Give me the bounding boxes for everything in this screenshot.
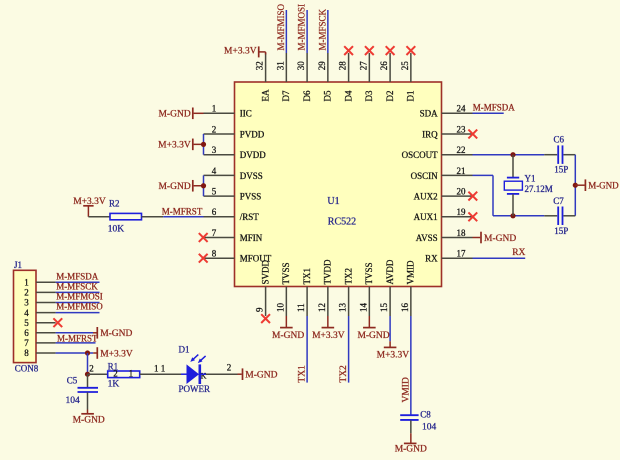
pin 32 EA [255,53,271,102]
junction pins 4-5 [201,183,206,188]
svg-text:M-MFSDA: M-MFSDA [473,102,516,112]
pin 24 SDA [420,104,473,119]
pin 30 D6 [296,53,312,102]
pin 14 TVSS [358,262,374,316]
op-amp U1 RC522 IC body [235,82,442,287]
svg-text:7: 7 [212,228,217,238]
pin 18 AVSS [416,228,473,243]
svg-text:M-GND: M-GND [73,415,105,425]
svg-text:OSCOUT: OSCOUT [402,150,439,160]
wire net TX2 pin 13 [348,316,350,383]
svg-text:PVDD: PVDD [240,129,265,139]
svg-text:1: 1 [129,368,134,378]
svg-text:M+3.3V: M+3.3V [224,47,257,57]
LED D1 POWER [179,345,211,394]
pin 1 IIC [204,104,252,119]
J1 pin 7 [24,338,55,348]
svg-text:15P: 15P [554,165,568,175]
svg-text:DVDD: DVDD [240,150,266,160]
svg-text:U1: U1 [327,196,339,207]
wire net M-MFMISO J1 pin 4 [56,312,100,314]
connector J1 CON8 body [14,260,39,374]
pin 2 PVDD [204,124,265,139]
junction pins 2-3 [201,142,206,147]
svg-text:VMID: VMID [406,260,416,284]
junction node R1/C5 [85,372,90,377]
svg-text:DVSS: DVSS [240,171,263,181]
J1 pin 4 [24,308,55,318]
pin 31 D7 [275,53,291,102]
svg-text:27.12M: 27.12M [525,184,553,194]
svg-text:TX2: TX2 [339,365,349,383]
svg-text:D2: D2 [385,91,395,102]
svg-text:TVSS: TVSS [281,262,291,284]
svg-text:12: 12 [317,303,327,312]
svg-text:8: 8 [24,348,29,358]
wire net M-MFMOSI [306,10,308,53]
power M-GND at pin 18 [473,232,517,244]
wire pins 4-5 bridge [203,175,205,196]
power M-GND at pins 4-5 [158,180,203,192]
no-connect X pin 26 [386,46,395,55]
svg-text:MFIN: MFIN [240,233,263,243]
svg-text:M+3.3V: M+3.3V [158,141,191,151]
svg-text:M-GND: M-GND [245,370,277,380]
svg-text:RC522: RC522 [328,216,356,227]
crystal Y1 27.12M [504,155,552,216]
wire net M-MFRST J1 pin 7 [56,342,96,344]
capacitor C8 104 [400,410,436,434]
no-connect X pin 9 [261,314,270,323]
wire net M-MFMISO [285,10,287,53]
svg-text:2: 2 [227,362,232,372]
svg-text:3: 3 [24,298,29,308]
svg-text:TX1: TX1 [298,365,308,383]
pin 29 D5 [317,53,333,102]
wire M+3.3V to R2 [88,216,110,218]
svg-text:22: 22 [457,145,466,155]
svg-text:6: 6 [212,207,217,217]
svg-text:M-GND: M-GND [395,444,427,454]
svg-text:AUX1: AUX1 [414,212,438,222]
svg-text:15P: 15P [554,226,568,236]
power M-GND at C5 [73,410,105,426]
svg-text:2: 2 [212,124,217,134]
svg-text:M+3.3V: M+3.3V [312,331,345,341]
no-connect X J1 pin 5 [53,318,62,327]
svg-text:6: 6 [24,328,29,338]
svg-text:29: 29 [317,61,327,71]
svg-text:CON8: CON8 [15,364,39,374]
pin 8 MFOUT [204,249,272,264]
svg-text:1: 1 [154,364,159,374]
svg-text:SDA: SDA [420,109,439,119]
power M-GND at D1 [238,368,278,380]
svg-text:21: 21 [457,166,466,176]
junction M-GND osc [573,183,578,188]
wire net VMID pin 16 [410,316,412,415]
svg-text:M-GND: M-GND [272,331,304,341]
no-connect X pin 27 [365,46,374,55]
svg-text:8: 8 [212,249,217,259]
power M+3.3V at pin 32 [224,46,266,57]
J1 pin 8 [24,348,55,358]
svg-text:AVDD: AVDD [385,259,395,284]
svg-text:M-GND: M-GND [158,182,190,192]
svg-text:D7: D7 [281,90,291,101]
pin 12 TVDD [317,259,333,316]
power M-GND at J1 pin 6 [56,327,133,339]
svg-text:EA: EA [260,89,270,101]
power M-GND at pin 14 [357,316,389,341]
svg-text:M-MFSCK: M-MFSCK [317,8,327,50]
svg-text:M-GND: M-GND [158,110,190,120]
svg-text:RX: RX [512,248,525,258]
wire net RX pin 17 [473,257,526,259]
svg-text:3: 3 [212,145,217,155]
J1 pin 6 [24,328,55,338]
J1 pin 1 [24,278,55,288]
svg-text:Y1: Y1 [525,174,536,184]
svg-text:104: 104 [66,396,81,406]
svg-text:SVDD: SVDD [260,259,270,284]
wire net M-MFSDA J1 pin 1 [56,281,100,283]
wire net M-MFSCK [327,10,329,53]
svg-text:10: 10 [275,303,285,313]
wire D1 to M-GND [201,373,237,375]
power M+3.3V at J1 pin 8 [93,347,133,359]
svg-text:2: 2 [89,364,94,374]
wire J1 pin8 down to node [87,353,89,374]
svg-text:D4: D4 [343,90,353,101]
pin 17 RX [425,249,472,264]
no-connect X pin 25 [406,46,415,55]
svg-text:20: 20 [457,187,467,197]
pin 15 AVDD [379,259,395,316]
svg-text:M-GND: M-GND [357,331,389,341]
svg-text:5: 5 [212,187,217,197]
svg-text:17: 17 [457,249,467,259]
svg-text:VMID: VMID [402,377,412,402]
wire R2 to pin 6 [142,216,204,218]
power M-GND at pin 1 [158,108,203,120]
capacitor C7 15P [544,196,575,236]
power M+3.3V at pin 12 [312,316,345,341]
wire net TX1 pin 11 [306,316,308,383]
svg-text:K: K [201,372,207,381]
resistor R1 1K [108,361,140,389]
svg-text:M-MFMOSI: M-MFMOSI [56,292,103,302]
pin 5 PVSS [204,187,262,202]
pin 16 VMID [400,260,416,316]
svg-text:/RST: /RST [240,212,260,222]
capacitor C6 15P [544,134,575,174]
svg-text:9: 9 [255,307,265,312]
pin 6 /RST [204,207,260,222]
svg-text:18: 18 [457,228,467,238]
svg-text:11: 11 [296,303,306,312]
svg-text:1K: 1K [108,379,120,389]
power M+3.3V at pins 2-3 [158,139,203,151]
svg-text:1: 1 [161,364,166,374]
svg-text:PVSS: PVSS [240,192,262,202]
resistor R2 [108,199,142,235]
power M-GND at pin 10 [272,316,304,341]
pin 20 AUX2 [414,187,473,202]
svg-text:4: 4 [24,308,29,318]
wire net M-MFSCK J1 pin 2 [56,291,100,293]
svg-text:D1: D1 [406,91,416,102]
svg-text:OSCIN: OSCIN [411,171,439,181]
svg-text:30: 30 [296,61,306,71]
wire R1 to D1 [140,373,187,375]
svg-text:16: 16 [400,303,410,313]
pin 10 TVSS [275,262,291,316]
svg-text:D1: D1 [179,345,190,355]
pin 23 IRQ [422,124,472,139]
pin 28 D4 [338,53,354,102]
no-connect X pin 19 [468,212,477,221]
svg-text:24: 24 [457,104,467,114]
pin 21 OSCIN [411,166,473,181]
svg-text:31: 31 [275,61,285,70]
svg-text:10K: 10K [108,224,125,234]
pin 9 SVDD [255,259,271,316]
svg-text:1: 1 [212,104,217,114]
power M+3.3V at R2 [73,197,106,217]
svg-text:1: 1 [24,278,29,288]
svg-text:IIC: IIC [240,109,252,119]
svg-text:C5: C5 [67,376,78,386]
svg-text:TX2: TX2 [343,268,353,285]
svg-text:25: 25 [400,61,410,71]
pin 26 D2 [379,53,395,102]
svg-text:C6: C6 [554,134,565,144]
pin 22 OSCOUT [402,145,473,160]
svg-text:AVSS: AVSS [416,233,438,243]
svg-text:2: 2 [24,288,29,298]
power M-GND at C8 [395,433,427,454]
svg-text:27: 27 [358,61,368,71]
svg-text:32: 32 [255,61,265,70]
junction Y1 top [510,152,515,157]
svg-text:RX: RX [425,254,438,264]
svg-text:POWER: POWER [179,384,211,394]
svg-text:5: 5 [24,318,29,328]
svg-text:TX1: TX1 [302,268,312,285]
pin 11 TX1 [296,268,312,316]
svg-text:7: 7 [24,338,29,348]
svg-text:D5: D5 [323,90,333,101]
svg-text:104: 104 [422,422,437,432]
svg-text:26: 26 [379,61,389,71]
wire node to R1 [88,373,108,375]
svg-text:M+3.3V: M+3.3V [100,349,133,359]
wire net M-MFSDA pin 24 [473,112,504,114]
pin 4 DVSS [204,166,263,181]
pin 19 AUX1 [414,207,473,222]
svg-text:4: 4 [212,166,217,176]
no-connect X pin 20 [468,192,477,201]
wire C6 right vertical [574,155,576,216]
pin 27 D3 [358,53,374,102]
svg-text:19: 19 [457,207,467,217]
svg-text:M-MFSDA: M-MFSDA [56,271,99,281]
J1 pin 3 [24,298,55,308]
svg-text:D3: D3 [364,90,374,101]
svg-text:AUX2: AUX2 [414,192,438,202]
capacitor C5 104 [66,374,99,409]
svg-text:IRQ: IRQ [422,129,438,139]
svg-text:M-MFMOSI: M-MFMOSI [297,4,307,51]
pin 3 DVDD [204,145,267,160]
svg-text:M-MFRST: M-MFRST [57,333,98,343]
wire net M-MFMOSI J1 pin 3 [56,302,100,304]
svg-text:D6: D6 [302,90,312,101]
svg-text:C8: C8 [420,410,431,420]
svg-text:M-MFMISO: M-MFMISO [56,302,103,312]
pin 25 D1 [400,53,416,102]
svg-text:23: 23 [457,124,467,134]
wire pins 2-3 bridge [203,134,205,155]
svg-text:13: 13 [338,303,348,313]
svg-text:M-GND: M-GND [484,234,516,244]
svg-text:R1: R1 [108,361,119,371]
svg-text:M-MFRST: M-MFRST [162,207,203,217]
svg-text:M+3.3V: M+3.3V [377,351,410,361]
svg-text:TVDD: TVDD [323,259,333,284]
J1 pin 2 [24,288,55,298]
power M-GND oscillator [575,179,619,191]
svg-text:TVSS: TVSS [364,262,374,284]
no-connect X pin 28 [344,46,353,55]
svg-text:J1: J1 [14,260,22,270]
no-connect X pin 23 [468,130,477,139]
svg-text:M-GND: M-GND [100,329,132,339]
wire J1 pin 8 [56,352,94,354]
svg-text:M-MFSCK: M-MFSCK [56,282,98,292]
svg-text:C7: C7 [553,196,564,206]
svg-text:M-MFMISO: M-MFMISO [276,3,286,50]
pin 7 MFIN [204,228,263,243]
wire pin 21 down-around [473,175,545,215]
power M+3.3V at pin 15 [377,316,410,361]
svg-text:15: 15 [379,303,389,313]
svg-text:R2: R2 [109,199,120,209]
no-connect X pin 8 [199,254,208,263]
svg-text:28: 28 [338,61,348,71]
svg-text:14: 14 [358,303,368,313]
J1 pin 5 [24,318,55,328]
wire pin 22 to C6 [473,154,545,156]
junction J1 pin 8 [85,350,90,355]
junction Y1 bottom [510,213,515,218]
svg-text:M-GND: M-GND [588,180,619,190]
no-connect X pin 7 [199,233,208,242]
pin 13 TX2 [338,268,354,316]
